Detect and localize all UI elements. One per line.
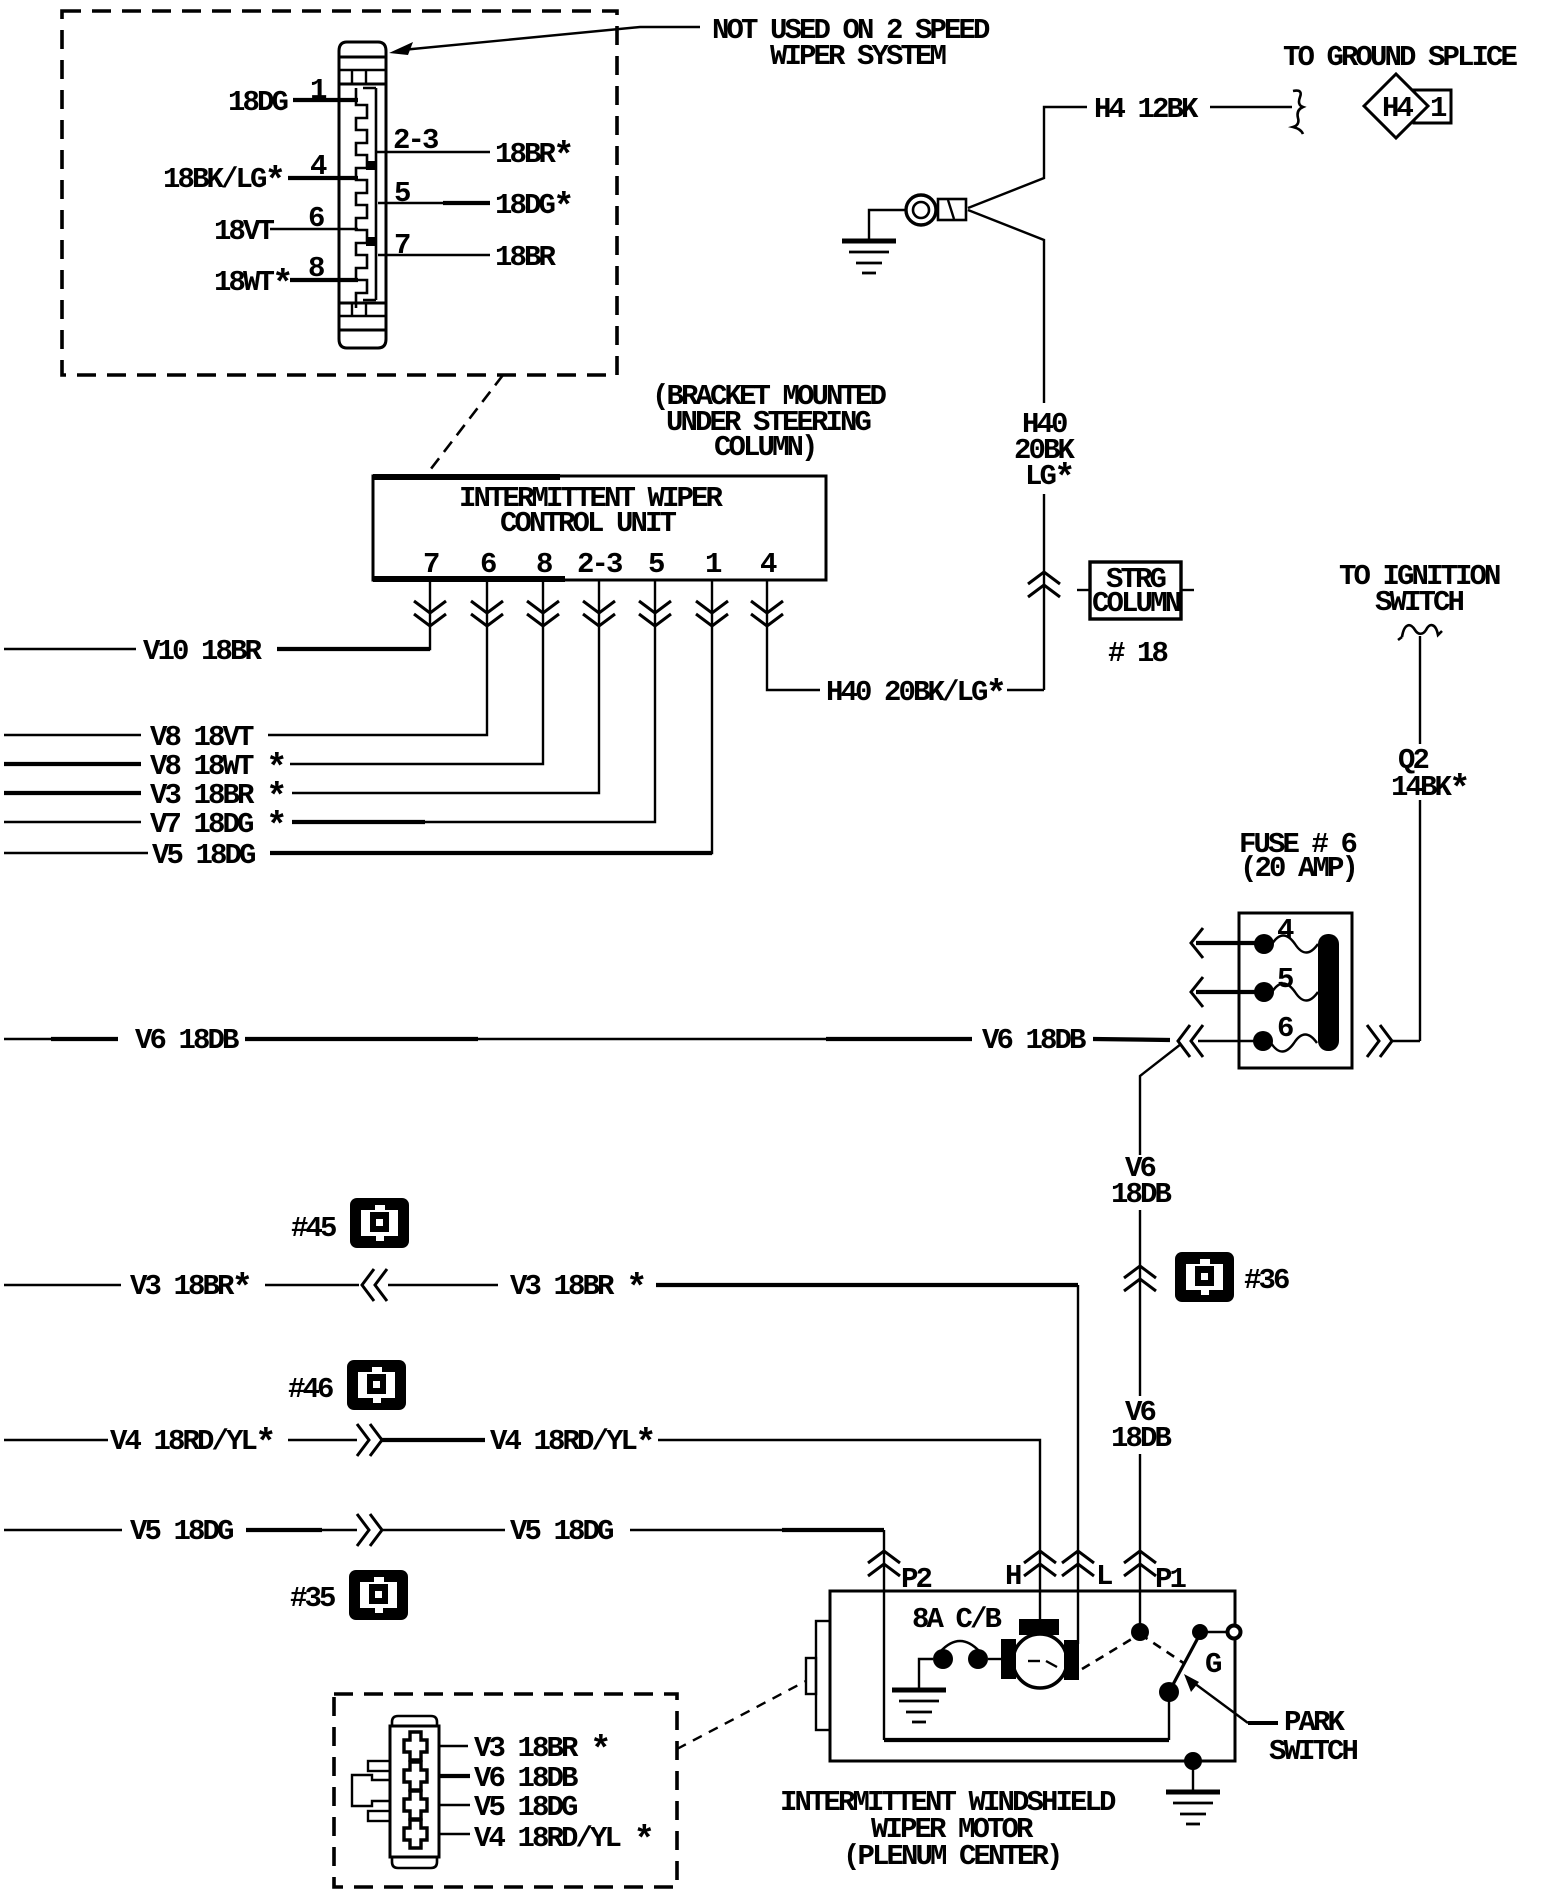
connector chevrons at wiper motor P2 H L P1 (868, 1551, 900, 1576)
node P1 contact (1131, 1623, 1149, 1641)
svg-text:18DG: 18DG (228, 86, 288, 119)
svg-text:#35: #35 (290, 1582, 335, 1615)
svg-text:H4 12BK: H4 12BK (1094, 93, 1199, 126)
svg-text:V4 18RD/YL*: V4 18RD/YL* (110, 1423, 274, 1464)
in-line connector #36 on V6 (1124, 1266, 1156, 1291)
svg-text:(20 AMP): (20 AMP) (1240, 852, 1356, 885)
svg-text:4: 4 (760, 548, 777, 581)
in-line connector #35 (349, 1570, 408, 1620)
svg-text:1: 1 (1430, 92, 1447, 125)
breakout squiggle (1293, 91, 1303, 134)
wire P2 internal run to park switch (883, 1591, 885, 1740)
connector C2 body (motor connector) (390, 1716, 439, 1868)
circuit breaker contacts (933, 1649, 953, 1669)
wiper motor box (830, 1591, 1235, 1761)
wire H4 12BK to splice breakout (1210, 106, 1292, 108)
wire V6 18DB main feed (4, 1038, 51, 1040)
svg-text:V5 18DG: V5 18DG (510, 1515, 613, 1548)
wire pin 2-3 (376, 151, 490, 153)
svg-text:18VT: 18VT (214, 215, 275, 248)
connector C1 key nubs (366, 161, 375, 170)
svg-text:WIPER SYSTEM: WIPER SYSTEM (770, 40, 946, 73)
wire V6 branch down to wiper motor P1 (1140, 1044, 1181, 1155)
svg-text:18DB: 18DB (1111, 1178, 1172, 1211)
wiper motor M (1013, 1634, 1067, 1688)
svg-text:#36: #36 (1244, 1264, 1289, 1297)
svg-text:LG*: LG* (1025, 458, 1073, 499)
park switch pivot contact (1159, 1682, 1179, 1702)
svg-text:V6 18DB: V6 18DB (982, 1024, 1086, 1057)
svg-text:4: 4 (1277, 914, 1294, 947)
wire Q2 14BK* vertical (1419, 636, 1421, 744)
svg-text:14BK*: 14BK* (1391, 769, 1468, 810)
svg-text:G: G (1205, 1648, 1221, 1681)
wire C2 pin to V4 (439, 1833, 470, 1835)
svg-text:V5 18DG: V5 18DG (130, 1515, 233, 1548)
wire ring terminal to ground (869, 210, 906, 239)
svg-text:V4 18RD/YL *: V4 18RD/YL * (474, 1820, 652, 1861)
svg-text:7: 7 (423, 548, 439, 581)
svg-text:V4 18RD/YL*: V4 18RD/YL* (490, 1423, 654, 1464)
wire pin8 to V8 18WT* (290, 580, 543, 764)
svg-text:(PLENUM CENTER): (PLENUM CENTER) (843, 1840, 1061, 1873)
wire pin 1 (293, 98, 358, 102)
wire to fuse 5 (1196, 990, 1256, 994)
wire V4 18RD/YL* row (4, 1439, 108, 1441)
wire L into right brush (1077, 1640, 1079, 1644)
breakout squiggle (ignition) (1402, 625, 1442, 637)
svg-text:V3 18BR*: V3 18BR* (130, 1268, 250, 1309)
svg-text:7: 7 (394, 229, 410, 262)
wire H40 vertical below label (1043, 494, 1045, 690)
in-line connector on H40 (1028, 572, 1060, 597)
svg-text:#46: #46 (288, 1373, 333, 1406)
wire V3 18BR* row (4, 1284, 121, 1286)
svg-text:COLUMN): COLUMN) (714, 431, 816, 464)
svg-text:8A C/B: 8A C/B (912, 1603, 1002, 1636)
park switch mechanical link (dashed) (1082, 1634, 1140, 1669)
ground (top splice ground) (842, 241, 896, 273)
wire to fuse 4 (1196, 941, 1256, 945)
wire pin 7 (378, 254, 490, 256)
svg-text:H4: H4 (1382, 92, 1414, 125)
wire V10 18BR left (4, 648, 136, 650)
svg-text:V5 18DG: V5 18DG (152, 839, 255, 872)
wire fuse 6 out right to ignition feed (1392, 1040, 1420, 1042)
in-line connector #46 (347, 1360, 406, 1410)
svg-text:2-3: 2-3 (577, 548, 622, 581)
wire from ring terminal up to H4 12BK (968, 107, 1087, 208)
connector C2 pins (404, 1732, 427, 1848)
leader to park switch (1248, 1721, 1278, 1725)
wire pin 6 (270, 228, 358, 230)
dashed detail box (steering column connector) (62, 11, 617, 375)
wire pin 4 (288, 176, 358, 180)
svg-text:V6 18DB: V6 18DB (135, 1024, 239, 1057)
in-line connector #45 (350, 1198, 409, 1248)
wire V3 to wiper motor L (656, 1283, 1078, 1287)
wire pin 8 (290, 278, 358, 282)
wire fuse 6 from V6 connector (1198, 1040, 1255, 1042)
svg-text:SWITCH: SWITCH (1375, 586, 1464, 619)
svg-text:18DB: 18DB (1111, 1422, 1172, 1455)
dashed detail box (motor connector) (334, 1694, 677, 1887)
svg-text:18BR: 18BR (495, 241, 557, 274)
svg-text:L: L (1096, 1560, 1112, 1593)
wire pin6 to V8 18VT (268, 580, 487, 735)
fuse bus bar (1318, 934, 1339, 1051)
connector C2 lock tabs (368, 1761, 390, 1771)
svg-text:6: 6 (480, 548, 496, 581)
svg-text:6: 6 (1277, 1012, 1293, 1045)
svg-text:5: 5 (648, 548, 664, 581)
leader arrowhead (389, 42, 413, 55)
splice id box (1) (1414, 90, 1451, 123)
svg-text:# 18: # 18 (1108, 637, 1168, 670)
ground (motor case) (1166, 1792, 1220, 1824)
svg-text:5: 5 (394, 177, 410, 210)
wire pin7 to V10 18BR (277, 580, 430, 649)
wire V4 to wiper motor H (658, 1440, 1040, 1620)
wire pin1 to V5 18DG (270, 580, 712, 853)
ground (motor internal) (892, 1690, 946, 1722)
wire breaker to motor brush (988, 1658, 1002, 1660)
intermittent wiper control unit box (373, 476, 826, 580)
splice diamond H4 (1364, 74, 1428, 138)
wire pin5 to V7 18DG* (292, 580, 655, 822)
wire pin 5 (378, 202, 490, 204)
connector C1 inner comb (356, 88, 376, 308)
svg-text:COLUMN: COLUMN (1092, 587, 1181, 620)
wire from ring terminal down to H40 (968, 210, 1044, 403)
connector C1 body (8-way steering column connector) (339, 42, 386, 348)
svg-text:H40 20BK/LG*: H40 20BK/LG* (826, 674, 1004, 715)
dashed leader from detail box to control unit (427, 375, 503, 474)
svg-text:18WT*: 18WT* (214, 264, 291, 305)
svg-text:5: 5 (1277, 963, 1293, 996)
wire C2 pin to V5 (439, 1804, 470, 1806)
wire C2 pin to V6 (439, 1774, 470, 1778)
wire breaker to ground (919, 1659, 933, 1688)
svg-text:V3 18BR *: V3 18BR * (510, 1268, 645, 1309)
wire H40 label to vertical (1007, 689, 1044, 691)
leader line for note (402, 27, 700, 50)
svg-text:V5 18DG: V5 18DG (474, 1791, 577, 1824)
svg-text:V10 18BR: V10 18BR (143, 635, 263, 668)
svg-text:TO GROUND SPLICE: TO GROUND SPLICE (1283, 41, 1518, 74)
fuse block box (1239, 913, 1352, 1068)
svg-text:1: 1 (705, 548, 722, 581)
wire V5 to wiper motor P2 (630, 1529, 782, 1531)
svg-text:#45: #45 (291, 1212, 336, 1245)
wire C2 pin to V3 (439, 1745, 468, 1747)
wire V5 18DG row (4, 1529, 122, 1531)
wire pin2-3 to V3 18BR* (292, 580, 599, 793)
svg-text:SWITCH: SWITCH (1269, 1735, 1358, 1768)
svg-text:18BK/LG*: 18BK/LG* (163, 161, 283, 202)
steering column pass-through box (1077, 589, 1090, 591)
svg-text:CONTROL UNIT: CONTROL UNIT (500, 507, 677, 540)
wire motor case to ground (1184, 1752, 1202, 1770)
wire pin4 to H40 20BK/LG* (767, 580, 820, 690)
motor case side connector tabs (816, 1621, 830, 1730)
svg-text:H: H (1005, 1560, 1021, 1593)
dashed leader from motor to detail box (677, 1681, 806, 1749)
svg-text:18DG*: 18DG* (495, 187, 572, 228)
svg-text:8: 8 (536, 548, 552, 581)
ring terminal eyelet (906, 195, 936, 225)
park switch arm G (1169, 1634, 1200, 1692)
svg-text:18BR*: 18BR* (495, 136, 572, 177)
